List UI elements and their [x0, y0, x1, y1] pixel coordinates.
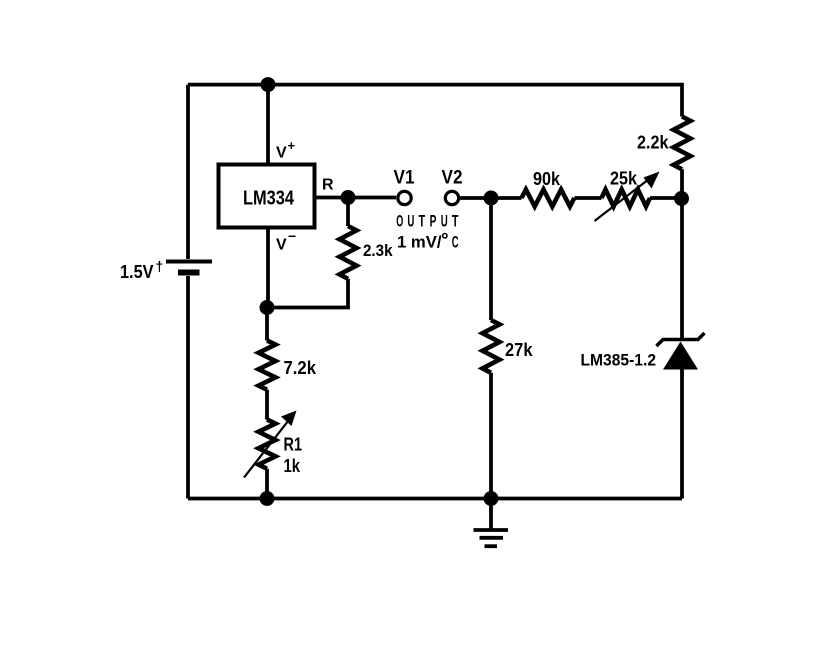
wire right rail 2.2k to zener [680, 169, 684, 339]
wire right rail top (corner to 2.2k) [680, 83, 684, 117]
wire 90k to 25k [574, 196, 601, 200]
label 1 mV/degC [397, 233, 459, 252]
label V+ pin [276, 138, 296, 162]
battery B1 1.5V [166, 262, 212, 273]
wire R1 to bottom rail [265, 469, 269, 499]
label LM385-1.2 [581, 351, 657, 370]
svg-text:O: O [396, 211, 403, 230]
resistor 90k [522, 190, 575, 207]
wire 2.3k bottom to V- node [267, 279, 348, 308]
wire top rail [188, 83, 682, 87]
diode D1 zener LM385-1.2 [657, 333, 705, 370]
node junction dot bottom left [260, 491, 275, 506]
svg-text:V1: V1 [394, 167, 415, 189]
node V1 terminal circle [398, 191, 411, 204]
wire left rail upper (to battery) [186, 85, 190, 259]
resistor 2.3k [340, 226, 357, 279]
label 25k [610, 168, 638, 189]
arrow of 25k potentiometer [595, 172, 660, 222]
wire ground stub [489, 499, 493, 530]
label 1.5V dagger [120, 258, 163, 282]
node V2 terminal circle [445, 191, 458, 204]
label V2 [442, 167, 463, 189]
node junction dot right rail [674, 191, 689, 206]
node junction dot at R pin [341, 190, 356, 205]
svg-text:LM385-1.2: LM385-1.2 [581, 351, 657, 370]
svg-text:25k: 25k [610, 168, 638, 189]
op-amp U1 LM334 box [219, 165, 315, 228]
label 2.3k [363, 241, 393, 260]
wire 2.3k branch top [346, 198, 350, 227]
label V1 [394, 167, 415, 189]
svg-text:U: U [407, 211, 414, 230]
svg-text:V: V [276, 237, 287, 254]
label 7.2k [284, 358, 317, 378]
svg-text:7.2k: 7.2k [284, 358, 317, 378]
resistor 27k [483, 320, 500, 373]
label V- pin [276, 228, 296, 254]
svg-text:P: P [430, 211, 437, 230]
node junction dot V-/2.3k [260, 300, 275, 315]
svg-text:T: T [419, 211, 426, 230]
wire bottom rail [188, 497, 682, 501]
svg-text:LM334: LM334 [243, 188, 295, 210]
wire R pin to node [314, 196, 348, 200]
node junction dot at V2/27k [484, 191, 499, 206]
svg-text:V: V [276, 145, 287, 162]
wire V- stub from LM334 to lower node [266, 228, 270, 308]
wire node to 90k [491, 196, 522, 200]
label 90k [533, 168, 561, 189]
resistor 25k (variable) [602, 190, 651, 207]
wire 27k branch top [489, 198, 493, 320]
label 27k [505, 339, 533, 360]
wire node to 7.2k [265, 308, 269, 341]
label R pin [322, 177, 334, 194]
label R1 [284, 435, 303, 455]
wire right rail zener to bottom [680, 370, 684, 499]
svg-text:R1: R1 [284, 435, 303, 455]
resistor 2.2k [674, 117, 691, 170]
resistor 7.2k [259, 341, 276, 390]
label 2.2k [637, 133, 669, 153]
svg-text:27k: 27k [505, 339, 533, 360]
label OUTPUT [396, 211, 459, 230]
svg-text:90k: 90k [533, 168, 561, 189]
wire left rail lower (battery to bottom) [186, 276, 190, 499]
wire V+ stub from top rail to LM334 [266, 85, 270, 165]
wire 7.2k to R1 [265, 390, 269, 420]
node junction dot top rail [261, 77, 276, 92]
svg-text:†: † [156, 258, 164, 274]
svg-text:1.5V: 1.5V [120, 261, 154, 282]
resistor R1 1k (variable) [259, 420, 276, 469]
svg-text:U: U [441, 211, 448, 230]
svg-text:+: + [288, 138, 296, 153]
wire node to V1 terminal [348, 196, 396, 200]
svg-text:−: − [288, 228, 296, 244]
ground [474, 530, 509, 546]
arrow of R1 potentiometer [244, 411, 297, 478]
label LM334 [243, 188, 295, 210]
svg-text:1 mV/: 1 mV/ [397, 233, 442, 252]
svg-text:2.3k: 2.3k [363, 241, 393, 260]
svg-text:T: T [452, 211, 459, 230]
svg-text:R: R [322, 177, 334, 194]
svg-text:1k: 1k [284, 456, 301, 476]
svg-text:C: C [452, 233, 459, 252]
wire V2 to middle node [459, 196, 491, 200]
wire 27k to bottom rail [489, 373, 493, 499]
label 1k [284, 456, 301, 476]
svg-text:2.2k: 2.2k [637, 133, 669, 153]
wire 25k to right rail [650, 196, 682, 200]
svg-text:V2: V2 [442, 167, 463, 189]
node junction dot bottom center [484, 491, 499, 506]
